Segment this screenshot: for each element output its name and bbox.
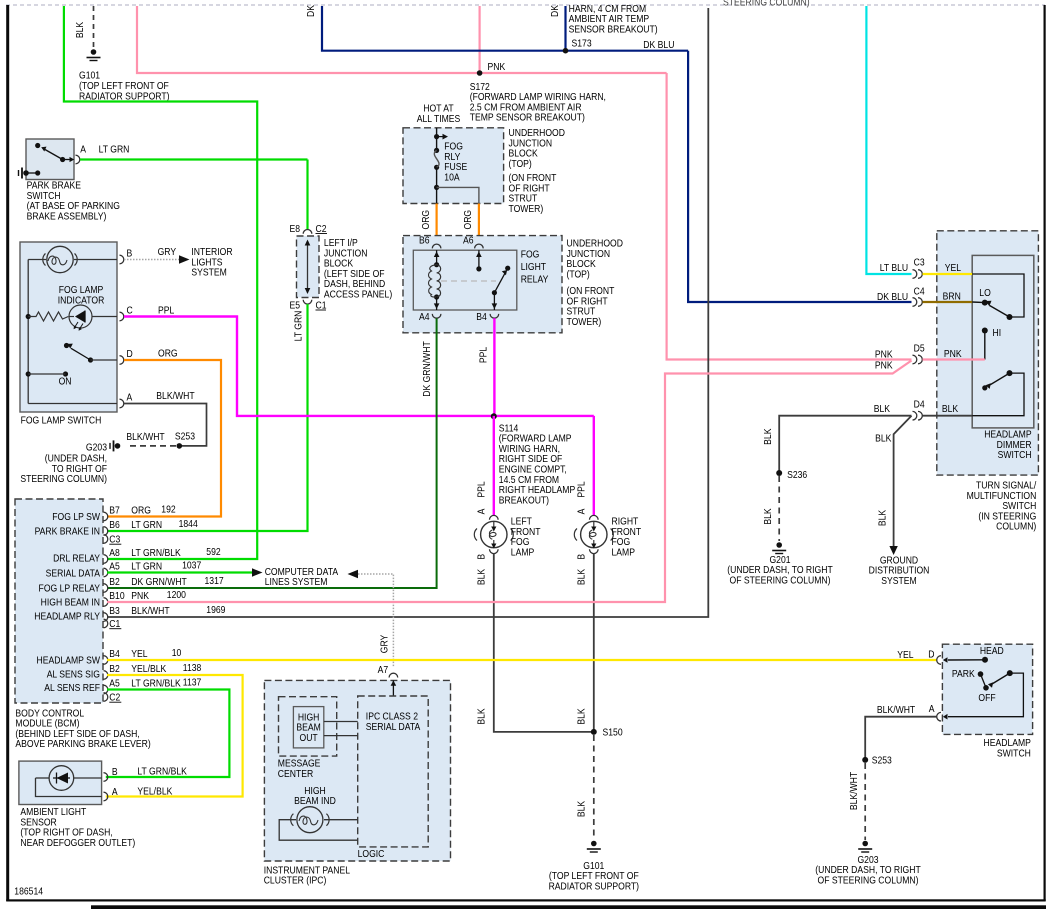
svg-text:AL SENS SIG: AL SENS SIG xyxy=(47,669,100,681)
svg-text:B4: B4 xyxy=(476,311,487,323)
wire PPL to right fog lamp xyxy=(593,416,595,516)
BCM connector C3 xyxy=(104,535,108,544)
svg-text:TOWER): TOWER) xyxy=(567,316,602,328)
svg-text:COLUMN): COLUMN) xyxy=(996,521,1036,533)
splice S114 xyxy=(491,413,497,419)
svg-text:BLK: BLK xyxy=(942,404,959,416)
svg-text:BLK: BLK xyxy=(576,708,588,725)
wire BLK right fog lamp to S150 xyxy=(593,554,595,732)
svg-text:BLK: BLK xyxy=(476,568,488,585)
splice S173 xyxy=(563,48,569,54)
svg-text:E5: E5 xyxy=(289,300,300,312)
wire BLK dashed S150 to G101 xyxy=(593,735,595,840)
svg-text:S253: S253 xyxy=(872,755,892,767)
BCM pin B2 DK GRN/WHT xyxy=(104,584,108,593)
svg-text:BLK: BLK xyxy=(877,509,889,526)
svg-text:STEERING COLUMN): STEERING COLUMN) xyxy=(723,0,810,9)
relay switch arm xyxy=(492,290,497,295)
wire ORG fuse to relay A6 xyxy=(478,204,480,245)
svg-text:DK GRN/WHT: DK GRN/WHT xyxy=(421,341,433,397)
dimmer arm 2 return path xyxy=(972,373,1024,416)
svg-text:PPL: PPL xyxy=(476,481,488,497)
svg-text:BLK/WHT: BLK/WHT xyxy=(156,390,195,402)
svg-text:PNK: PNK xyxy=(875,360,893,372)
dimmer arm LO xyxy=(990,306,1010,318)
svg-text:OF STEERING COLUMN): OF STEERING COLUMN) xyxy=(730,575,831,587)
svg-text:GRY: GRY xyxy=(379,634,391,653)
head contact xyxy=(948,659,985,661)
ON contact xyxy=(26,371,31,376)
junction block internal arrow xyxy=(307,241,309,293)
svg-text:ALL TIMES: ALL TIMES xyxy=(417,113,461,125)
BCM pin B4 YEL xyxy=(104,656,108,665)
fuse output branches xyxy=(436,167,438,203)
IPC class 2 serial data box xyxy=(358,696,429,847)
wire BLK D4 to dimmer xyxy=(923,415,973,417)
svg-text:A: A xyxy=(80,144,86,156)
svg-text:PARK: PARK xyxy=(952,668,975,680)
svg-text:LT GRN/BLK: LT GRN/BLK xyxy=(137,766,187,778)
svg-text:LT BLU: LT BLU xyxy=(880,262,909,274)
svg-text:PNK: PNK xyxy=(131,590,149,602)
headlamp switch arm xyxy=(1007,670,1013,676)
wire YEL headlamp sw xyxy=(107,659,937,661)
svg-text:PPL: PPL xyxy=(478,347,490,363)
instrument panel cluster box xyxy=(264,680,450,861)
svg-text:C4: C4 xyxy=(914,286,925,298)
svg-text:LT GRN: LT GRN xyxy=(293,310,305,341)
BCM pin B2 YEL/BLK xyxy=(104,671,108,680)
wire PNK D5 to HI xyxy=(923,358,985,360)
svg-text:LOGIC: LOGIC xyxy=(358,849,385,861)
svg-text:NEAR DEFOGGER OUTLET): NEAR DEFOGGER OUTLET) xyxy=(20,837,135,849)
BCM pin A5 LT GRN/BLK xyxy=(104,685,108,694)
svg-text:LT GRN: LT GRN xyxy=(99,144,130,156)
svg-text:1200: 1200 xyxy=(167,590,186,602)
svg-text:CENTER: CENTER xyxy=(278,768,314,780)
svg-text:E8: E8 xyxy=(289,223,300,235)
BCM pin A5 LT GRN xyxy=(104,568,108,577)
connector D4 xyxy=(913,411,917,420)
wire PNK from top edge xyxy=(137,6,667,73)
ground G201 xyxy=(776,542,782,548)
svg-text:RADIATOR SUPPORT): RADIATOR SUPPORT) xyxy=(549,881,639,893)
pin C fog switch xyxy=(120,312,124,321)
wire DK GRN/WHT relay A4 to BCM xyxy=(107,318,437,588)
svg-text:B: B xyxy=(476,554,488,560)
LED fog lamp indicator xyxy=(26,314,31,319)
ground G101 bottom xyxy=(591,841,597,847)
svg-text:BEAM IND: BEAM IND xyxy=(294,796,336,808)
pin A4 relay xyxy=(432,314,441,318)
svg-text:CLUSTER (IPC): CLUSTER (IPC) xyxy=(264,875,327,887)
svg-text:BLK/WHT: BLK/WHT xyxy=(126,431,165,443)
svg-text:D: D xyxy=(928,649,934,661)
svg-text:BLK: BLK xyxy=(576,568,588,585)
splice S253 left xyxy=(177,443,183,449)
BCM pin A8 LT GRN/BLK xyxy=(104,555,108,564)
wire PPL to left fog lamp xyxy=(493,416,495,516)
park brake switch internals xyxy=(35,143,40,148)
right front fog lamp xyxy=(590,515,599,519)
relay coil xyxy=(436,250,438,265)
BCM connector C1 xyxy=(104,619,108,628)
wire PNK stub above S172 xyxy=(479,6,481,73)
splice S150 xyxy=(591,729,597,735)
pin D fog switch xyxy=(120,356,124,365)
wire DK BLU left branch xyxy=(322,6,688,51)
wire PNK down to D5 xyxy=(667,73,912,360)
svg-text:FOG LP RELAY: FOG LP RELAY xyxy=(39,583,101,595)
fog light relay inner box xyxy=(413,250,517,310)
bulb high beam indicator xyxy=(297,807,323,833)
svg-text:TEMP SENSOR BREAKOUT): TEMP SENSOR BREAKOUT) xyxy=(470,112,585,124)
svg-text:B6: B6 xyxy=(109,519,120,531)
svg-text:1037: 1037 xyxy=(182,560,201,572)
pin B fog switch xyxy=(120,255,124,264)
svg-text:BLK: BLK xyxy=(762,428,774,445)
svg-text:B4: B4 xyxy=(109,648,120,660)
pin B4 relay xyxy=(490,314,499,318)
high beam out connections xyxy=(324,721,358,723)
svg-text:A7: A7 xyxy=(378,664,389,676)
svg-text:A: A xyxy=(476,508,488,514)
connector C4 xyxy=(913,298,917,307)
svg-text:10: 10 xyxy=(172,648,182,660)
svg-text:ON: ON xyxy=(59,376,72,388)
fog light relay outer dashed box xyxy=(403,236,562,333)
high beam out box xyxy=(293,707,323,748)
svg-text:DK: DK xyxy=(549,4,561,17)
svg-text:ACCESS PANEL): ACCESS PANEL) xyxy=(324,289,392,301)
wire PNK 1200 BCM B10 to D5 xyxy=(107,361,912,603)
pin E5/C1 xyxy=(303,300,312,304)
wire LT GRN park brake down through junction block xyxy=(306,160,308,230)
fuse FOG RLY FUSE 10A xyxy=(434,148,439,153)
pin B6 relay xyxy=(432,244,441,248)
pin A fog switch xyxy=(28,403,117,405)
wire BLK/WHT dashed to G203 right xyxy=(864,763,866,840)
wire LT GRN below junction block to BCM B6 xyxy=(107,304,308,531)
svg-text:DK GRN/WHT: DK GRN/WHT xyxy=(131,576,187,588)
svg-text:BLK: BLK xyxy=(874,404,891,416)
wire BLK dashed to G201 xyxy=(778,476,780,541)
svg-text:SYSTEM: SYSTEM xyxy=(191,267,227,279)
svg-text:A: A xyxy=(576,508,588,514)
svg-text:LT GRN: LT GRN xyxy=(131,561,162,573)
svg-text:A5: A5 xyxy=(109,561,120,573)
svg-text:PNK: PNK xyxy=(944,348,962,360)
svg-text:BLK/WHT: BLK/WHT xyxy=(131,605,170,617)
BCM pin B6 LT GRN xyxy=(104,527,108,536)
svg-text:B: B xyxy=(127,248,133,260)
svg-text:RELAY: RELAY xyxy=(521,274,549,286)
svg-text:BLK/WHT: BLK/WHT xyxy=(849,772,861,811)
svg-text:B3: B3 xyxy=(109,605,120,617)
svg-text:OF STEERING COLUMN): OF STEERING COLUMN) xyxy=(818,875,919,887)
fuse feed line xyxy=(436,128,438,151)
svg-text:DK BLU: DK BLU xyxy=(643,39,674,51)
svg-text:BLK: BLK xyxy=(762,508,774,525)
svg-text:B2: B2 xyxy=(109,576,120,588)
svg-text:592: 592 xyxy=(206,547,220,559)
svg-text:10A: 10A xyxy=(444,172,460,184)
svg-text:A5: A5 xyxy=(109,678,120,690)
wire DK BLU stub to S173 xyxy=(564,6,566,51)
switch arm fog switch xyxy=(64,343,69,348)
svg-text:DK BLU: DK BLU xyxy=(877,291,908,303)
svg-text:D: D xyxy=(127,348,133,360)
svg-text:OUT: OUT xyxy=(300,732,318,744)
relay linkage dashed xyxy=(441,280,496,282)
svg-text:LT GRN/BLK: LT GRN/BLK xyxy=(131,547,181,559)
ambient light sensor box xyxy=(19,761,102,804)
fog lamp switch box xyxy=(20,242,117,412)
page frame top dashed line xyxy=(6,4,1045,6)
turn signal multifunction switch outer box xyxy=(937,231,1039,475)
BCM connector C2 xyxy=(104,693,108,702)
bulb fog lamp switch illumination xyxy=(28,259,46,261)
svg-text:BLK: BLK xyxy=(476,708,488,725)
junction block left I/P box xyxy=(297,236,320,298)
svg-text:A4: A4 xyxy=(419,311,430,323)
svg-text:YEL/BLK: YEL/BLK xyxy=(131,663,167,675)
svg-text:YEL: YEL xyxy=(945,263,961,275)
svg-text:SENSOR BREAKOUT): SENSOR BREAKOUT) xyxy=(569,24,658,36)
message center box xyxy=(279,697,337,756)
svg-text:C: C xyxy=(127,305,133,317)
svg-text:C3: C3 xyxy=(914,257,925,269)
svg-text:ORG: ORG xyxy=(131,505,151,517)
svg-text:B10: B10 xyxy=(109,590,124,602)
svg-text:(TOP): (TOP) xyxy=(567,269,590,281)
svg-text:1317: 1317 xyxy=(205,576,224,588)
svg-text:BLK: BLK xyxy=(74,21,86,38)
wire LT GRN park brake xyxy=(80,158,308,160)
svg-text:1969: 1969 xyxy=(206,605,225,617)
pin D headlamp switch xyxy=(937,656,941,665)
svg-text:LINES SYSTEM: LINES SYSTEM xyxy=(265,576,328,588)
splice S253 right xyxy=(862,757,868,763)
svg-text:OFF: OFF xyxy=(978,692,995,704)
svg-text:DRL RELAY: DRL RELAY xyxy=(53,553,101,565)
svg-text:A: A xyxy=(112,786,118,798)
ground G203 right xyxy=(862,841,868,847)
svg-text:FOG LP SW: FOG LP SW xyxy=(52,511,100,523)
dimmer arm 2 xyxy=(1007,370,1013,376)
connector C3 xyxy=(913,270,917,279)
dimmer internal path from YEL xyxy=(972,274,1024,317)
svg-text:1137: 1137 xyxy=(183,677,202,689)
wire GRY computer data to IPC A7 xyxy=(348,570,359,578)
svg-text:B: B xyxy=(576,554,588,560)
splice S236 xyxy=(776,470,782,476)
svg-text:YEL: YEL xyxy=(897,649,913,661)
photodiode xyxy=(49,766,74,791)
pin A sensor xyxy=(104,792,108,801)
svg-text:A6: A6 xyxy=(463,235,474,247)
svg-text:LT GRN/BLK: LT GRN/BLK xyxy=(131,678,181,690)
wire LT GRN/BLK 592 xyxy=(64,6,257,559)
svg-text:TOWER): TOWER) xyxy=(509,203,544,215)
svg-text:B6: B6 xyxy=(419,235,430,247)
wire YEL C3 to dimmer xyxy=(923,273,973,275)
wire YEL/BLK 1138 BCM to sensor A xyxy=(106,675,243,797)
fog lamp switch left rail xyxy=(27,260,29,404)
svg-text:BREAKOUT): BREAKOUT) xyxy=(499,495,549,507)
svg-text:S253: S253 xyxy=(175,431,195,443)
svg-text:1138: 1138 xyxy=(183,663,202,675)
svg-text:186514: 186514 xyxy=(14,886,43,898)
svg-text:BLK: BLK xyxy=(875,433,892,445)
svg-text:HEADLAMP RLY: HEADLAMP RLY xyxy=(34,611,100,623)
svg-text:HEAD: HEAD xyxy=(980,645,1004,657)
svg-text:(TOP): (TOP) xyxy=(509,158,532,170)
svg-text:STEERING COLUMN): STEERING COLUMN) xyxy=(20,473,107,485)
svg-text:FOG: FOG xyxy=(521,249,540,261)
next page top bar xyxy=(91,905,1046,909)
svg-text:192: 192 xyxy=(161,504,175,516)
body control module BCM box xyxy=(15,499,103,703)
wire GRY to interior lights xyxy=(124,259,179,261)
headlamp switch arm return path xyxy=(948,673,1023,717)
svg-text:LO: LO xyxy=(979,288,990,300)
BCM pin B3 BLK/WHT xyxy=(104,613,108,622)
svg-text:LAMP: LAMP xyxy=(511,547,534,559)
svg-text:HEADLAMP SW: HEADLAMP SW xyxy=(36,655,100,667)
relay switch fixed contact xyxy=(478,250,480,269)
wire PPL fog switch C to fog lamps xyxy=(124,317,594,416)
svg-text:PNK: PNK xyxy=(875,349,893,361)
page frame left bar xyxy=(6,5,9,901)
wire BLK dashed to G101 top xyxy=(93,6,95,48)
wire LT BLU from top to C3 xyxy=(866,6,911,274)
svg-text:AL SENS REF: AL SENS REF xyxy=(44,682,100,694)
wire BLK left fog lamp to S150 xyxy=(494,554,591,732)
wire LT GRN serial data 1037 xyxy=(107,571,252,573)
svg-text:LAMP: LAMP xyxy=(612,547,635,559)
svg-text:HIGH BEAM IN: HIGH BEAM IN xyxy=(41,597,101,609)
pin B sensor xyxy=(104,773,108,782)
svg-text:PPL: PPL xyxy=(576,481,588,497)
wire BLK/WHT 1969 to steering column xyxy=(107,8,708,617)
svg-text:LT GRN: LT GRN xyxy=(131,519,162,531)
svg-text:ABOVE PARKING BRAKE LEVER): ABOVE PARKING BRAKE LEVER) xyxy=(15,739,150,751)
svg-text:HI: HI xyxy=(993,328,1002,340)
page frame right bar xyxy=(1044,5,1046,901)
svg-text:ORG: ORG xyxy=(158,348,178,360)
BCM pin B10 PNK xyxy=(104,598,108,607)
pin A headlamp switch xyxy=(937,712,941,721)
wire BRN C4 to LO xyxy=(923,301,973,303)
svg-text:BRAKE ASSEMBLY): BRAKE ASSEMBLY) xyxy=(27,211,107,223)
svg-text:YEL: YEL xyxy=(131,648,147,660)
svg-text:SYSTEM: SYSTEM xyxy=(881,575,917,587)
wire LT GRN/BLK 1137 BCM to sensor B xyxy=(106,690,230,778)
wire DK BLU to C4 xyxy=(688,51,911,302)
svg-text:PNK: PNK xyxy=(488,61,506,73)
splice S172 xyxy=(477,70,483,76)
wire BLK/WHT from fog switch A xyxy=(124,404,207,446)
page frame bottom line xyxy=(6,899,1046,901)
pin A6 relay xyxy=(475,244,484,248)
svg-text:S150: S150 xyxy=(603,727,623,739)
svg-text:BLK: BLK xyxy=(576,800,588,817)
wire BLK/WHT headlamp switch A to S253 xyxy=(865,717,937,760)
svg-text:A8: A8 xyxy=(109,547,120,559)
svg-text:FOG LAMP SWITCH: FOG LAMP SWITCH xyxy=(21,415,102,427)
svg-text:S173: S173 xyxy=(572,38,592,50)
svg-text:A: A xyxy=(929,703,935,715)
svg-text:D5: D5 xyxy=(914,343,925,355)
svg-text:DK: DK xyxy=(305,4,317,17)
wire BLK/WHT dashed to G203 xyxy=(126,445,176,447)
pin A park brake xyxy=(76,155,80,164)
svg-text:1844: 1844 xyxy=(179,519,198,531)
svg-text:ORG: ORG xyxy=(420,210,432,230)
HI contact xyxy=(982,328,988,334)
svg-text:B2: B2 xyxy=(109,663,120,675)
wire BLK D4 to S236/G201 xyxy=(779,416,911,473)
svg-text:SERIAL DATA: SERIAL DATA xyxy=(46,568,101,580)
svg-text:SWITCH: SWITCH xyxy=(998,449,1032,461)
underhood junction block fuse box xyxy=(403,128,504,204)
svg-text:A: A xyxy=(127,392,133,404)
BCM pin B7 ORG xyxy=(104,512,108,521)
svg-text:B7: B7 xyxy=(109,505,120,517)
headlamp dimmer switch inner box xyxy=(972,255,1034,428)
svg-text:LIGHT: LIGHT xyxy=(521,261,547,273)
left front fog lamp xyxy=(490,515,499,519)
svg-text:ORG: ORG xyxy=(463,210,475,230)
svg-text:GRY: GRY xyxy=(158,246,177,258)
ground G101 (top left) xyxy=(91,49,97,55)
svg-text:PARK BRAKE IN: PARK BRAKE IN xyxy=(35,526,101,538)
svg-text:BLK/WHT: BLK/WHT xyxy=(877,704,916,716)
svg-text:PPL: PPL xyxy=(158,305,174,317)
headlamp switch box xyxy=(942,644,1032,734)
bulb leads xyxy=(279,820,358,841)
wire BLK D4 to ground distribution xyxy=(894,416,912,546)
pin E8/C2 xyxy=(303,229,312,233)
ground chassis at park brake switch xyxy=(23,170,29,176)
wire ORG fuse to relay B6 xyxy=(436,204,438,245)
connector D5 xyxy=(913,355,917,364)
ground G203 left xyxy=(115,443,121,449)
svg-text:YEL/BLK: YEL/BLK xyxy=(137,786,173,798)
svg-text:B: B xyxy=(112,766,118,778)
svg-text:SWITCH: SWITCH xyxy=(997,748,1031,760)
svg-text:SERIAL DATA: SERIAL DATA xyxy=(366,721,421,733)
svg-text:D4: D4 xyxy=(914,399,925,411)
park brake switch box xyxy=(26,139,74,180)
wire PPL relay B4 down xyxy=(493,318,495,416)
svg-text:S236: S236 xyxy=(787,469,807,481)
wire ORG fog switch D to BCM B7 xyxy=(107,360,221,517)
